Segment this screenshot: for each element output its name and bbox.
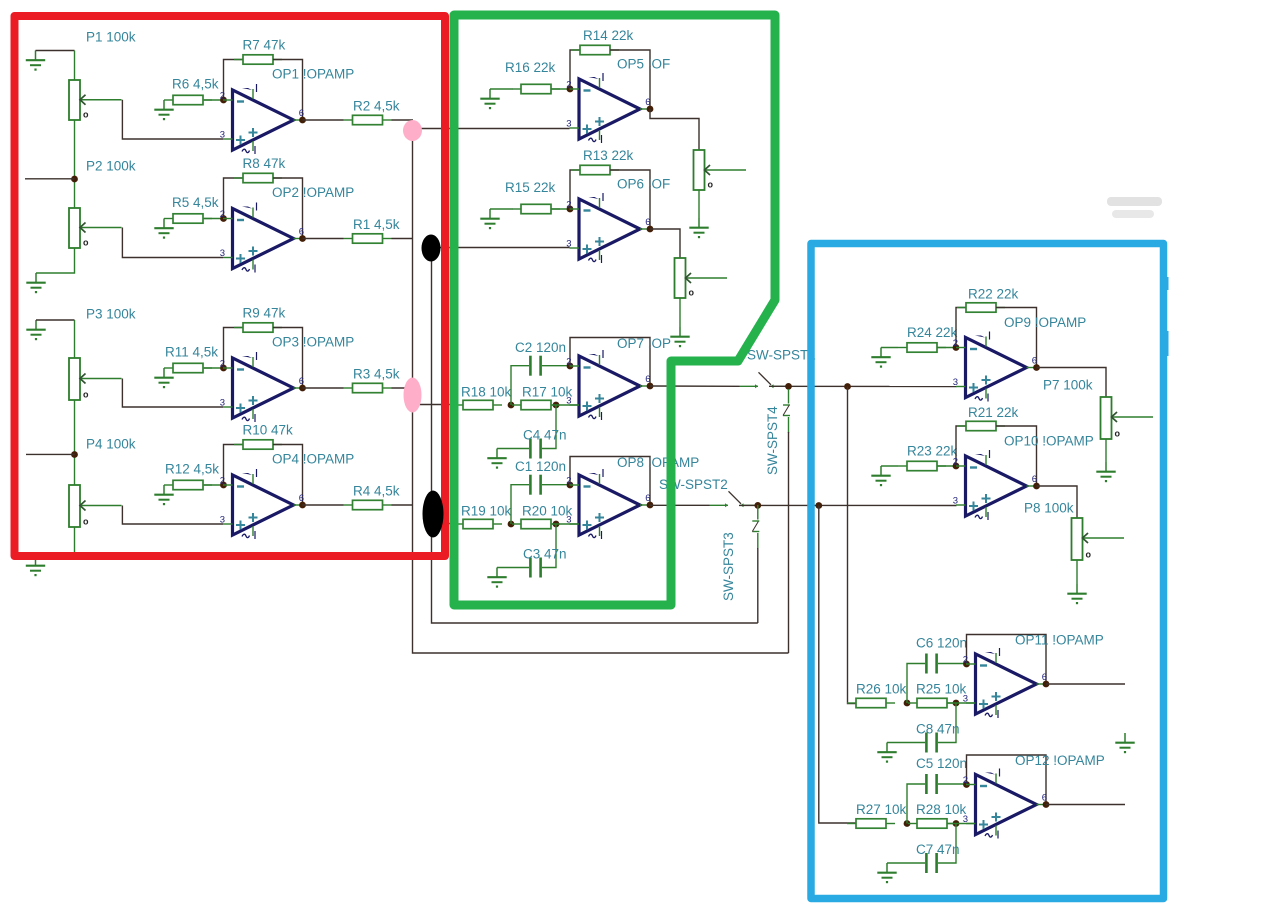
wire feedback OP11 [967, 635, 1047, 685]
svg-text:P2 100k: P2 100k [86, 159, 136, 174]
svg-text:R27 10k: R27 10k [856, 802, 907, 817]
svg-text:OP12 !OPAMP: OP12 !OPAMP [1015, 753, 1105, 768]
svg-text:SW-SPST4: SW-SPST4 [765, 406, 780, 475]
svg-text:R11 4,5k: R11 4,5k [165, 345, 218, 360]
wire feedback left OP9 [956, 308, 966, 348]
svg-text:P4 100k: P4 100k [86, 437, 136, 452]
svg-text:R25 10k: R25 10k [916, 682, 967, 697]
junction row2/R27 branch [815, 502, 822, 509]
wire P1 top to ground [36, 50, 75, 52]
resistor R15 22k [512, 204, 560, 213]
junction OP8 inverting input [567, 482, 574, 489]
svg-text:o: o [689, 288, 695, 298]
svg-text:R17 10k: R17 10k [522, 385, 573, 400]
wire R12 to inverting node [204, 484, 224, 486]
wire R5 to inverting node [204, 218, 224, 220]
wire R16 to ground [490, 88, 513, 90]
junction OP8 RC node [508, 521, 515, 528]
op-amp OP9 !OPAMP [953, 332, 1037, 402]
junction P1/P2 node [71, 176, 78, 183]
potentiometer P1 100k [69, 80, 122, 120]
svg-text:R14 22k: R14 22k [583, 28, 634, 43]
wire OP3 non-inverting input from pot wiper [122, 379, 223, 408]
resistor R11 4,5k [164, 363, 212, 372]
resistor R19 10k [454, 519, 502, 528]
resistor R4 4,5k [344, 500, 392, 509]
wire feedback right OP10 [996, 426, 1037, 486]
resistor R2 4,5k [344, 115, 392, 124]
wire OP2 output to R1 [303, 238, 344, 240]
junction OP7 non-inverting node [553, 402, 560, 409]
junction row1/R26 branch [844, 383, 851, 390]
capacitor C7 47n [925, 853, 938, 873]
svg-text:o: o [1115, 429, 1121, 439]
grey smudge 1 [1107, 197, 1162, 206]
svg-text:R16 22k: R16 22k [505, 60, 556, 75]
wire R15 to inverting node [551, 208, 570, 210]
wire C2 left [511, 366, 529, 405]
wire OP11 output [1046, 683, 1125, 685]
junction OP8 non-inverting node [553, 521, 560, 528]
wire R23 to ground [881, 465, 898, 467]
resistor R1 4,5k [344, 234, 392, 243]
ground for C7 [877, 863, 896, 883]
wire C2 to inverting input [542, 365, 570, 367]
svg-text:C5 120n: C5 120n [916, 756, 967, 771]
wire to OP8 pin3 [552, 523, 579, 525]
ground for R16 [480, 89, 499, 109]
svg-text:R7 47k: R7 47k [243, 38, 286, 53]
wire R16 to inverting node [551, 88, 570, 90]
svg-text:R10 47k: R10 47k [243, 423, 294, 438]
wire P7 to ground [1105, 439, 1107, 462]
wire feedback left OP3 [224, 328, 244, 369]
junction OP3 inverting input [220, 365, 227, 372]
wire feedback right OP9 [996, 308, 1037, 368]
wire OP4 non-inverting input from pot wiper [122, 506, 223, 525]
wire feedback left OP10 [956, 426, 966, 466]
op-amp OP4 !OPAMP [220, 469, 304, 539]
wire feedback right OP6 [610, 170, 650, 229]
op-amp OP1 !OPAMP [220, 84, 304, 154]
svg-text:o: o [708, 180, 714, 190]
ground below OP5 pot [689, 218, 708, 238]
wire to OP7 pin3 [552, 404, 579, 406]
potentiometer level pot after OP6 [675, 258, 728, 298]
green box (filter/inverter section) [454, 15, 775, 605]
resistor R10 47k [234, 440, 282, 449]
potentiometer P8 100k [1072, 518, 1125, 560]
resistor R9 47k [234, 323, 282, 332]
capacitor C5 120n [925, 774, 938, 794]
wire C8 right [938, 703, 956, 743]
resistor R6 4,5k [164, 95, 212, 104]
wire bus B jog [431, 239, 433, 248]
svg-text:C4 47n: C4 47n [523, 428, 567, 443]
grey smudge 2 [1112, 210, 1154, 218]
wire bus B jog at node D [431, 505, 433, 524]
potentiometer P4 100k [69, 485, 122, 527]
resistor R22 22k [957, 303, 1005, 312]
wire feedback right OP3 [273, 328, 303, 389]
wire C5 to inverting input [938, 783, 967, 785]
red box (input amplifier section) [15, 16, 446, 556]
svg-text:R18 10k: R18 10k [461, 385, 512, 400]
wire P3 top to ground [36, 319, 75, 321]
wire feedback right OP2 [273, 178, 303, 239]
op-amp OP11 !OPAMP [963, 648, 1047, 718]
wire C5 left [907, 784, 925, 824]
wire OP10 output to P8 [1037, 486, 1078, 518]
wire feedback OP12 [967, 755, 1047, 805]
wire R6 to inverting node [204, 99, 224, 101]
blue box edge bump 1 [1164, 277, 1169, 290]
wire R2 to bus [392, 119, 414, 121]
junction OP11 RC node [904, 700, 911, 707]
svg-text:OP8 !OPAMP: OP8 !OPAMP [617, 455, 699, 470]
wire node B to OP6 non-inverting input [432, 247, 570, 249]
junction OP1 output [299, 117, 306, 124]
junction OP3 output [299, 385, 306, 392]
wire P3 top pin [74, 320, 76, 358]
node D marker (black blob) [423, 491, 444, 538]
wire P2 bottom to ground [36, 248, 75, 273]
wire R15 to ground [490, 208, 513, 210]
svg-text:R6 4,5k: R6 4,5k [172, 77, 219, 92]
wire OP1 output to R2 [303, 119, 344, 121]
ground for R24 [871, 348, 890, 368]
wire SW-SPST4 to bus A [788, 432, 790, 653]
resistor R12 4,5k [164, 480, 212, 489]
svg-text:C2 120n: C2 120n [515, 340, 566, 355]
ground below P8 [1067, 584, 1086, 604]
junction OP11 non-inverting node [953, 700, 960, 707]
wire R4 to bus [392, 504, 414, 506]
wire pot to ground [679, 298, 681, 327]
wire input stub ch1/2 [25, 178, 75, 180]
junction OP5 inverting input [567, 86, 574, 93]
svg-text:SW-SPST1: SW-SPST1 [747, 348, 816, 363]
op-amp OP3 !OPAMP [220, 352, 304, 422]
junction OP11 output [1043, 681, 1050, 688]
svg-text:P3 100k: P3 100k [86, 307, 136, 322]
resistor R5 4,5k [164, 214, 212, 223]
svg-text:OP3 !OPAMP: OP3 !OPAMP [272, 335, 354, 350]
ground for R12 [154, 485, 173, 505]
svg-text:OP9 !OPAMP: OP9 !OPAMP [1004, 315, 1086, 330]
wire P3 bottom to P4 top [74, 400, 76, 485]
resistor R28 10k [908, 819, 956, 828]
junction row1/SW4 [785, 383, 792, 390]
wire feedback OP8 [570, 457, 650, 506]
op-amp OP2 !OPAMP [220, 203, 304, 273]
wire C6 to inverting input [938, 663, 967, 665]
wire feedback left OP5 [570, 50, 580, 89]
wire feedback OP7 [570, 338, 650, 387]
junction OP10 inverting input [953, 463, 960, 470]
wire OP6 output to level pot [650, 229, 680, 258]
svg-text:R20 10k: R20 10k [522, 504, 573, 519]
wire SW-SPST3 to bus B [757, 548, 759, 623]
wire C4 to ground [497, 448, 529, 450]
resistor R14 22k [571, 45, 619, 54]
svg-text:R24 22k: R24 22k [907, 325, 958, 340]
ground below OP6 pot [670, 327, 689, 347]
wire bus B (OP2/OP4 outputs) to SW-SPST3 [432, 248, 758, 624]
junction OP8 output [647, 502, 654, 509]
ground for C4 [487, 449, 506, 469]
wire SW-SPST2 to OP10 input [739, 504, 957, 506]
resistor R23 22k [898, 461, 946, 470]
ground for R6 [154, 100, 173, 120]
svg-text:OP5 !OF: OP5 !OF [617, 57, 670, 72]
resistor R18 10k [454, 400, 502, 409]
svg-text:P7 100k: P7 100k [1043, 378, 1093, 393]
resistor R8 47k [234, 173, 282, 182]
blue box (output section) [811, 244, 1164, 899]
svg-text:OP11 !OPAMP: OP11 !OPAMP [1015, 633, 1104, 648]
wire OP1 non-inverting input from pot wiper [122, 100, 223, 139]
wire OP4 output to R4 [303, 504, 344, 506]
resistor R27 10k [847, 819, 895, 828]
wire row2 branch to R27 [819, 506, 856, 824]
svg-text:C7 47n: C7 47n [916, 842, 960, 857]
ground for P1 top [26, 51, 45, 71]
wire bus A jog at node C [412, 388, 414, 405]
svg-text:SW-SPST3: SW-SPST3 [721, 532, 736, 601]
svg-text:R15 22k: R15 22k [505, 180, 556, 195]
wire R11 to inverting node [204, 367, 224, 369]
resistor R24 22k [898, 343, 946, 352]
junction OP9 inverting input [953, 344, 960, 351]
op-amp OP8 !OPAMP [566, 469, 650, 539]
wire input stub ch3/4 [26, 453, 75, 455]
wire C4 right [542, 405, 556, 449]
switch SW-SPST4 [783, 389, 790, 433]
junction OP4 inverting input [220, 482, 227, 489]
ground for P2 bottom [26, 273, 45, 293]
junction OP9 output [1033, 364, 1040, 371]
capacitor C4 47n [529, 439, 542, 459]
svg-text:OP2 !OPAMP: OP2 !OPAMP [272, 185, 354, 200]
junction OP4 output [299, 502, 306, 509]
wire feedback left OP1 [224, 60, 244, 101]
ground (floating, right side) [1115, 733, 1134, 753]
capacitor C8 47n [925, 733, 938, 753]
svg-text:P1 100k: P1 100k [86, 30, 136, 45]
wire OP7 output to SW-SPST1 [650, 385, 740, 387]
wire C7 to ground [887, 862, 925, 864]
svg-text:R23 22k: R23 22k [907, 444, 958, 459]
wire to OP12 pin3 [947, 823, 976, 825]
switch SW-SPST3 [752, 505, 759, 549]
svg-text:R3 4,5k: R3 4,5k [353, 367, 400, 382]
wire R24 to inverting node [937, 347, 956, 349]
svg-text:R28 10k: R28 10k [916, 802, 967, 817]
svg-text:C3 47n: C3 47n [523, 547, 567, 562]
switch SW-SPST2 [710, 491, 760, 507]
wire feedback right OP4 [273, 445, 303, 506]
node C marker (pink blob) [404, 378, 422, 413]
svg-text:R19 10k: R19 10k [461, 504, 512, 519]
op-amp OP5 !OF [566, 73, 650, 143]
wire C3 right [542, 524, 556, 568]
svg-text:R8 47k: R8 47k [243, 156, 286, 171]
potentiometer level pot after OP5 [694, 150, 747, 190]
svg-text:R2 4,5k: R2 4,5k [353, 99, 400, 114]
wire R3 to bus [392, 387, 414, 389]
op-amp OP7 !OP [566, 350, 650, 420]
wire OP2 non-inverting input from pot wiper [122, 228, 223, 258]
wire C1 to inverting input [542, 484, 570, 486]
junction OP2 output [299, 235, 306, 242]
node B marker (black blob) [422, 235, 441, 262]
ground for R5 [154, 219, 173, 239]
svg-text:R13 22k: R13 22k [583, 148, 634, 163]
wire feedback right OP5 [610, 50, 650, 109]
svg-text:P8 100k: P8 100k [1024, 501, 1074, 516]
resistor R3 4,5k [344, 383, 392, 392]
capacitor C6 120n [925, 654, 938, 674]
svg-text:C6 120n: C6 120n [916, 636, 967, 651]
wire feedback left OP6 [570, 170, 580, 209]
ground for P4 bottom [26, 556, 45, 576]
wire P1 top pin [74, 51, 76, 81]
svg-text:R12 4,5k: R12 4,5k [165, 462, 219, 477]
wire OP5 output to level pot [650, 109, 699, 150]
junction OP10 output [1033, 483, 1040, 490]
svg-text:OP7 !OP: OP7 !OP [617, 336, 671, 351]
op-amp OP12 !OPAMP [963, 769, 1047, 839]
junction OP7 RC node [508, 402, 515, 409]
node A marker (pink blob) [403, 120, 422, 141]
resistor R16 22k [512, 84, 560, 93]
switch SW-SPST1 [740, 372, 790, 388]
op-amp OP10 !OPAMP [953, 450, 1037, 520]
wire bus A (OP1/OP3 outputs) to SW-SPST4 [413, 122, 789, 653]
wire C7 right [938, 824, 956, 864]
svg-text:R9 47k: R9 47k [243, 306, 286, 321]
junction OP2 inverting input [220, 215, 227, 222]
svg-text:o: o [83, 110, 89, 120]
svg-text:OP4 !OPAMP: OP4 !OPAMP [272, 452, 354, 467]
wire node C to R18 [413, 404, 455, 406]
svg-text:R5 4,5k: R5 4,5k [172, 195, 219, 210]
junction OP7 inverting input [567, 363, 574, 370]
potentiometer P2 100k [69, 208, 122, 248]
svg-text:o: o [1086, 550, 1092, 560]
resistor R17 10k [512, 400, 560, 409]
svg-text:R26 10k: R26 10k [856, 682, 907, 697]
ground for R23 [871, 466, 890, 486]
wire C1 left [511, 485, 529, 524]
wire P8 to ground [1076, 560, 1078, 584]
wire P4 bottom to ground [36, 527, 75, 556]
wire P1 bottom to P2 top [74, 120, 76, 208]
svg-text:OP10 !OPAMP: OP10 !OPAMP [1004, 434, 1094, 449]
svg-text:OP1 !OPAMP: OP1 !OPAMP [272, 67, 354, 82]
resistor R25 10k [908, 698, 956, 707]
wire pot to ground [698, 190, 700, 218]
svg-text:R4 4,5k: R4 4,5k [353, 484, 400, 499]
resistor R26 10k [847, 698, 895, 707]
junction OP12 non-inverting node [953, 820, 960, 827]
resistor R20 10k [512, 519, 560, 528]
ground for P3 top [26, 320, 45, 340]
resistor R21 22k [957, 421, 1005, 430]
wire R24 to ground [881, 347, 898, 349]
potentiometer P7 100k [1101, 397, 1154, 439]
op-amp OP6 !OF [566, 193, 650, 263]
ground for C3 [487, 568, 506, 588]
junction P3/P4 node [71, 451, 78, 458]
svg-text:o: o [83, 238, 89, 248]
ground for R15 [480, 209, 499, 229]
capacitor C1 120n [529, 475, 542, 495]
capacitor C2 120n [529, 356, 542, 376]
blue box edge bump 2 [1164, 331, 1169, 356]
wire feedback left OP2 [224, 178, 244, 219]
potentiometer P3 100k [69, 358, 122, 400]
wire to OP11 pin3 [947, 702, 976, 704]
wire SW-SPST1 to OP9 input [769, 385, 957, 387]
svg-text:R1 4,5k: R1 4,5k [353, 217, 400, 232]
svg-text:o: o [83, 517, 89, 527]
wire node A to OP5 non-inverting input [413, 128, 570, 130]
wire OP8 output to SW-SPST2 [650, 504, 710, 506]
svg-text:C8 47n: C8 47n [916, 722, 960, 737]
wire feedback left OP4 [224, 445, 244, 486]
junction OP6 output [647, 226, 654, 233]
wire OP9 output to P7 [1037, 368, 1107, 398]
svg-text:C1 120n: C1 120n [515, 459, 566, 474]
wire C8 to ground [887, 742, 925, 744]
junction OP5 output [647, 106, 654, 113]
junction OP12 RC node [904, 820, 911, 827]
junction OP11 inverting input [963, 661, 970, 668]
junction OP12 output [1043, 801, 1050, 808]
svg-text:OP6 !OF: OP6 !OF [617, 177, 670, 192]
junction OP7 output [647, 383, 654, 390]
wire R1 to bus [392, 238, 414, 240]
wire OP12 output [1046, 804, 1125, 806]
resistor R7 47k [234, 55, 282, 64]
junction OP12 inverting input [963, 781, 970, 788]
resistor R13 22k [571, 165, 619, 174]
wire row1 branch to R26 [848, 387, 857, 704]
wire R23 to inverting node [937, 465, 956, 467]
svg-text:o: o [83, 390, 89, 400]
wire OP3 output to R3 [303, 387, 344, 389]
ground for R11 [154, 368, 173, 388]
svg-text:R22 22k: R22 22k [968, 287, 1019, 302]
wire node D to R19 [432, 523, 455, 525]
svg-text:R21 22k: R21 22k [968, 405, 1019, 420]
junction row2/SW3 [754, 502, 761, 509]
ground below P7 [1096, 462, 1115, 482]
junction OP1 inverting input [220, 97, 227, 104]
ground for C8 [877, 743, 896, 763]
capacitor C3 47n [529, 558, 542, 578]
junction OP6 inverting input [567, 206, 574, 213]
wire feedback right OP1 [273, 60, 303, 121]
wire C6 left [907, 664, 925, 704]
wire C3 to ground [497, 567, 529, 569]
